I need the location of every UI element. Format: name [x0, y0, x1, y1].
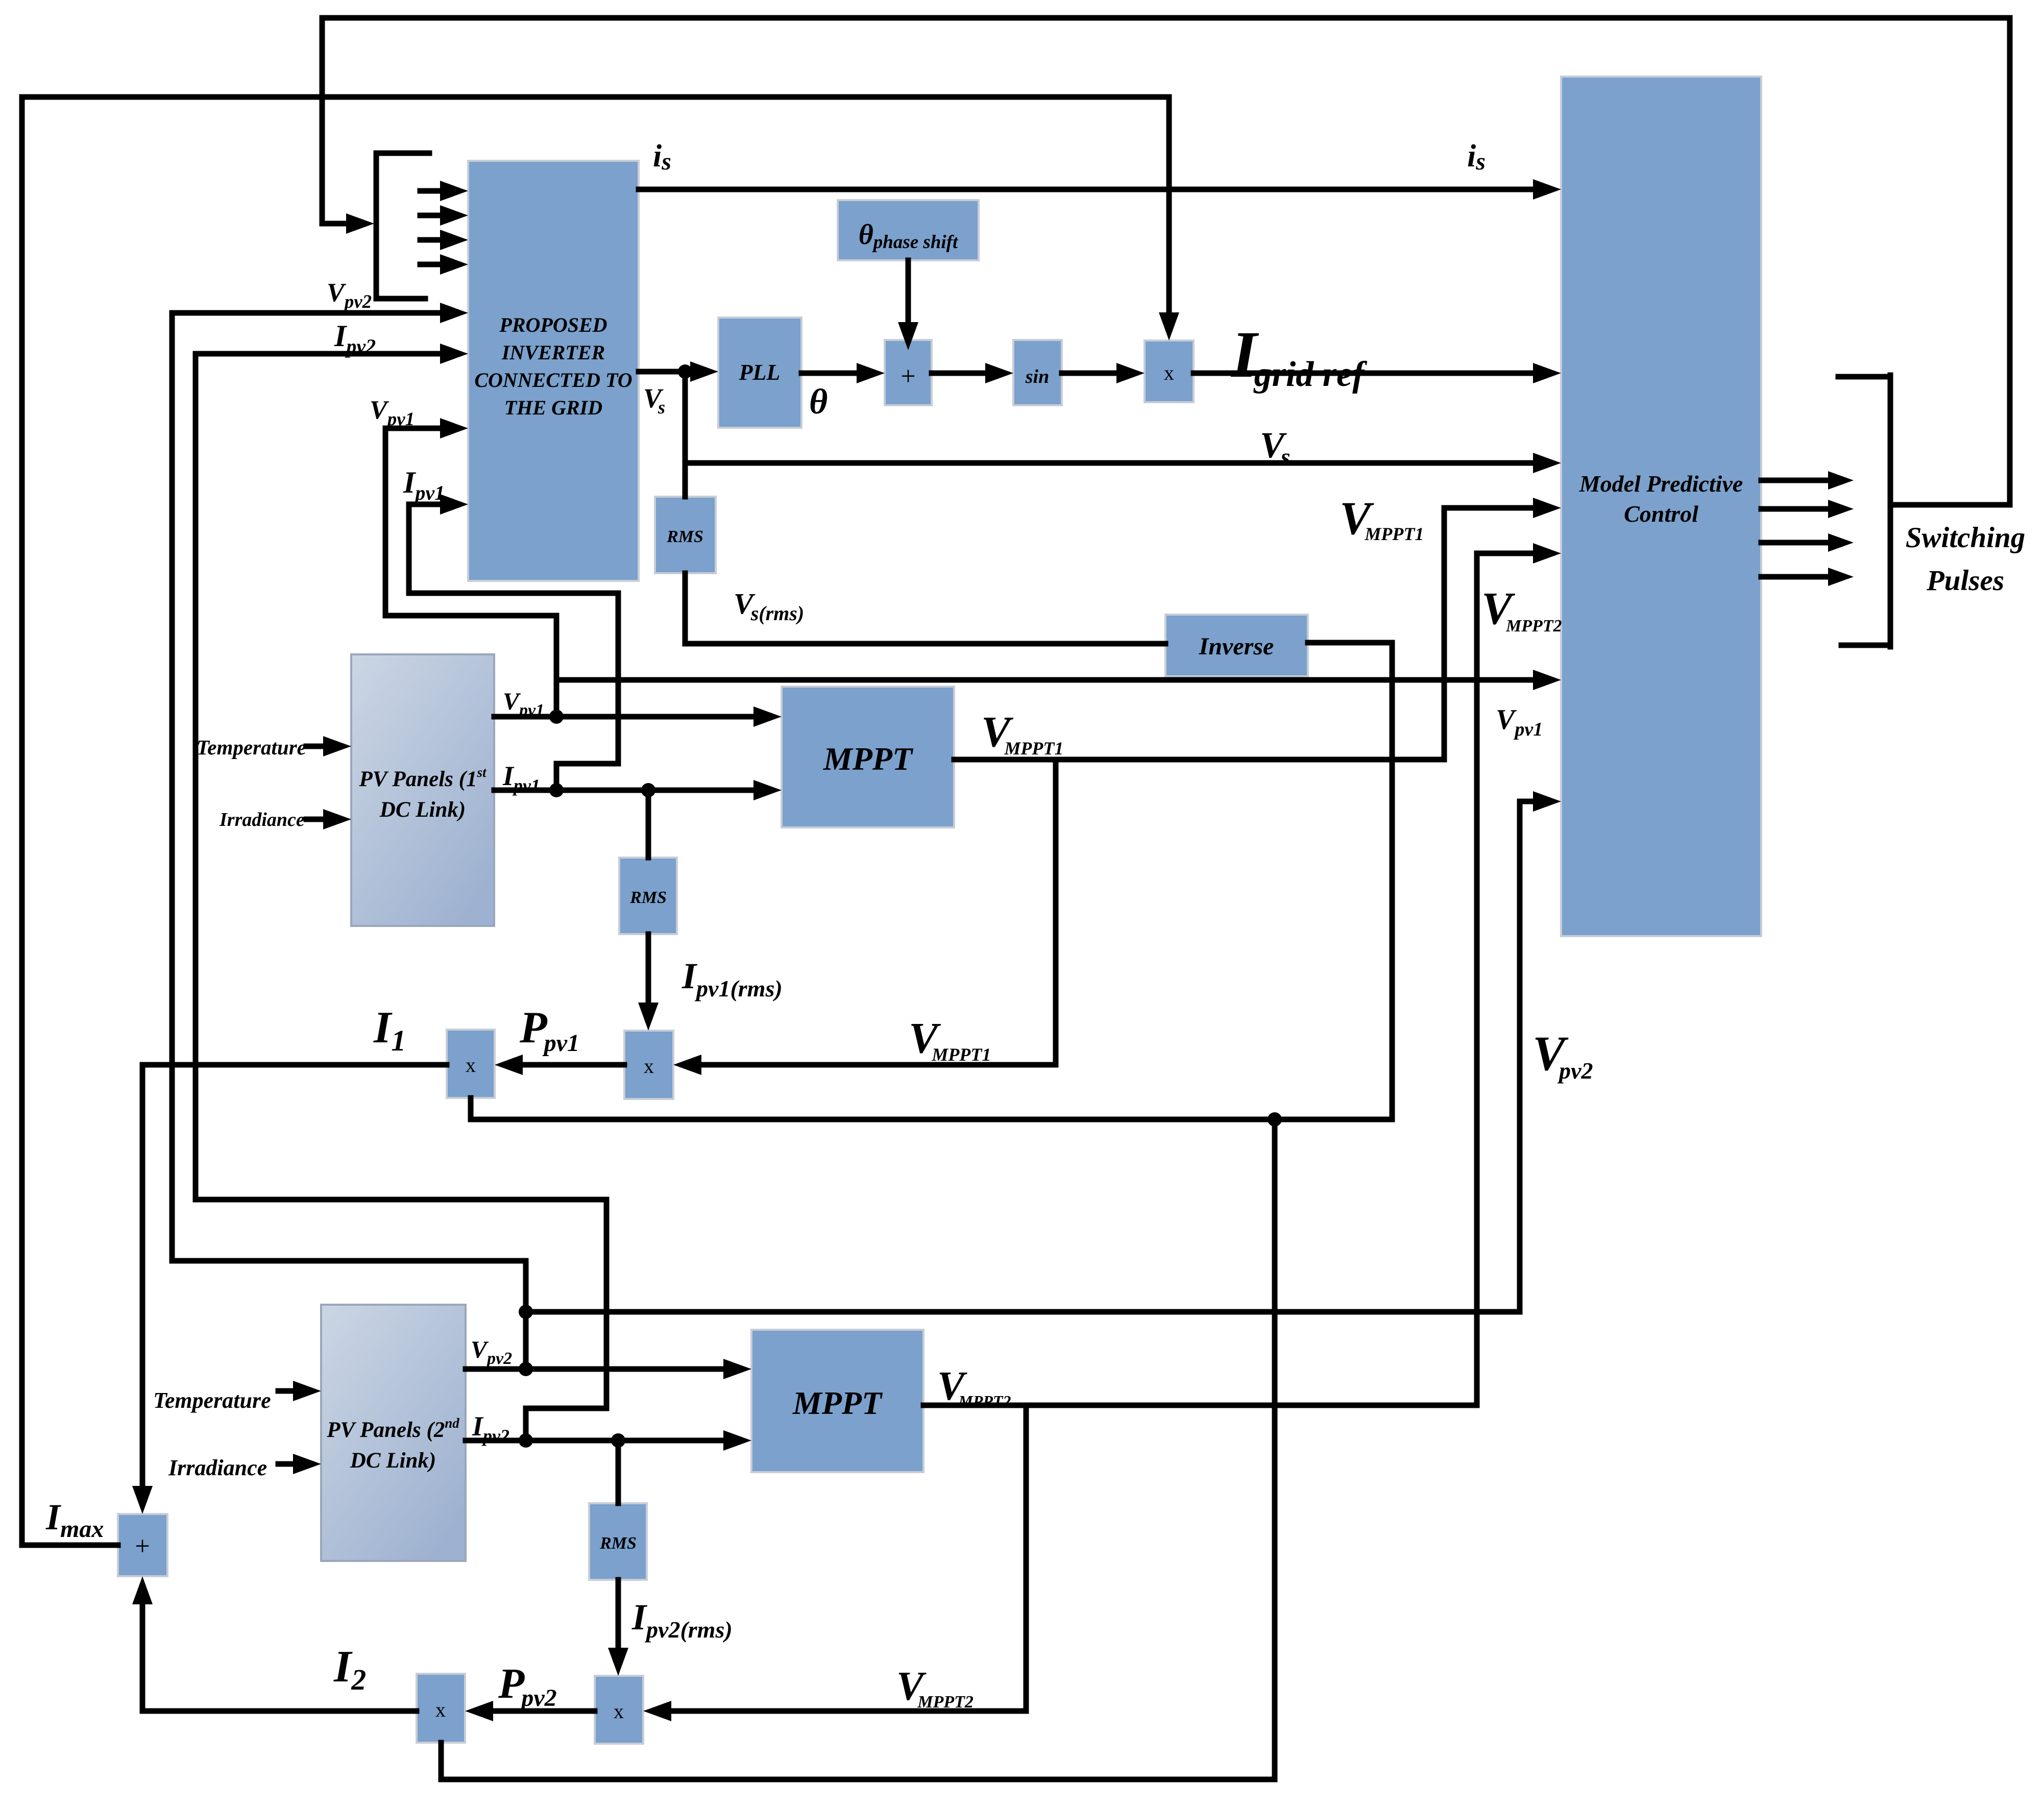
block summer plus	[885, 340, 932, 405]
wire switching pulses bracket top	[1838, 374, 1890, 380]
wire VMPPT2 output horizontal	[923, 1403, 1477, 1408]
svg-text:Ipv1: Ipv1	[403, 466, 445, 504]
node Vs junction	[678, 364, 692, 379]
block MPPT1	[782, 687, 954, 827]
svg-text:sin: sin	[1025, 366, 1049, 387]
svg-text:Imax: Imax	[45, 1497, 104, 1543]
wire Inverse output vertical	[1390, 643, 1395, 1119]
svg-text:Switching: Switching	[1906, 522, 2025, 554]
wire net Imax horizontal top	[22, 94, 1169, 100]
svg-text:VMPPT1: VMPPT1	[981, 707, 1063, 759]
wire switching pulses bracket bottom	[1841, 643, 1890, 648]
block PV Panels 2nd DC Link	[321, 1305, 466, 1561]
wire net Igrid ref to MPC	[1194, 371, 1537, 376]
wire PLL theta output	[801, 371, 858, 376]
node Ipv1 junction 2	[641, 783, 655, 797]
svg-text:VMPPT2: VMPPT2	[1481, 583, 1562, 636]
wire Imax vertical into multiplier	[1166, 97, 1172, 312]
svg-text:Temperature: Temperature	[197, 736, 306, 759]
block multiplier X4 I2	[417, 1674, 465, 1743]
wire Inverse output to I1 multiplier bottom	[471, 1117, 1392, 1122]
svg-text:DC Link): DC Link)	[350, 1449, 436, 1473]
svg-text:+: +	[901, 362, 915, 391]
svg-text:MPPT: MPPT	[823, 741, 914, 777]
wire switching pulses bracket vertical	[1888, 375, 1893, 647]
block multiplier X5 Ppv2	[595, 1676, 643, 1744]
svg-text:DC Link): DC Link)	[379, 798, 466, 822]
svg-text:Ipv2: Ipv2	[472, 1411, 509, 1446]
wire Vpv1 vertical riser	[554, 616, 559, 717]
wire MPC output pulse 1	[1761, 478, 1833, 483]
wire Ipv2 into inverter	[196, 351, 439, 357]
wire MPC output pulse 3	[1761, 540, 1833, 546]
svg-text:VMPPT1: VMPPT1	[909, 1013, 991, 1065]
node Ipv2 junction 2	[611, 1433, 625, 1448]
svg-text:Vs: Vs	[643, 383, 665, 418]
node Vpv2 junction 2	[519, 1305, 533, 1319]
wire switching feedback top horizontal	[322, 15, 2010, 21]
wire Vs branch to MPC	[685, 460, 1537, 466]
svg-text:Pulses: Pulses	[1926, 565, 2004, 597]
svg-text:VMPPT2: VMPPT2	[937, 1364, 1011, 1410]
wire Vpv1 jog horizontal	[385, 613, 556, 619]
svg-text:PROPOSED: PROPOSED	[499, 313, 607, 336]
wire VMPPT1 output horizontal	[954, 757, 1444, 763]
block multiplier X3 Ppv1	[624, 1031, 673, 1099]
wire summer to sin	[932, 371, 985, 376]
wire gate arrow 2 into inverter	[420, 213, 439, 218]
wire Vpv1 into inverter	[385, 426, 439, 431]
wire Irradiance into panel 2	[278, 1461, 294, 1467]
svg-text:VMPPT2: VMPPT2	[896, 1664, 974, 1712]
wire Temperature into panel 1	[306, 744, 324, 749]
svg-text:Ipv2(rms): Ipv2(rms)	[631, 1597, 733, 1643]
wire Vpv2 jog horizontal	[172, 1258, 526, 1264]
wire VMPPT2 into MPC	[1477, 551, 1537, 556]
wire Vpv2 vertical riser	[523, 1261, 529, 1369]
wire gate bracket vertical	[374, 153, 379, 299]
block RMS Ipv2	[589, 1503, 647, 1580]
svg-text:THE GRID: THE GRID	[504, 396, 602, 419]
wire gate bracket bottom	[376, 296, 425, 302]
wire VMPPT2 branch vertical down	[1024, 1405, 1029, 1711]
wire Vs vertical to RMS	[683, 372, 688, 497]
wire Ipv2 jog 2	[196, 1197, 606, 1203]
wire Ipv1 into inverter	[409, 502, 439, 507]
block PLL	[718, 317, 801, 428]
node Vpv2 junction 1	[519, 1362, 533, 1376]
node Ipv1 junction 1	[549, 783, 564, 797]
svg-text:x: x	[614, 1700, 624, 1723]
wire Vpv2 into MPC	[1520, 799, 1537, 804]
svg-text:PLL: PLL	[739, 360, 781, 385]
wire Ipv1 jog 2	[409, 591, 618, 596]
svg-text:θ: θ	[809, 382, 828, 422]
wire net Vpv1 panel output to MPPT1	[494, 714, 754, 720]
wire VMPPT1 vertical branch	[1053, 760, 1059, 1065]
svg-text:Model Predictive: Model Predictive	[1579, 471, 1743, 497]
block multiplier X2 I1	[447, 1030, 495, 1098]
wire net I1 horizontal	[142, 1062, 447, 1068]
svg-text:x: x	[644, 1055, 654, 1078]
wire net Ppv1 to I1 multiplier	[522, 1062, 624, 1068]
wire Inverse branch vertical down	[1272, 1119, 1278, 1779]
block MPPT2	[751, 1330, 923, 1472]
svg-text:Vpv1: Vpv1	[503, 688, 544, 720]
wire MPC output pulse 2	[1761, 506, 1833, 512]
wire sin to multiplier	[1062, 371, 1118, 376]
wire gate arrow 3 into inverter	[420, 237, 439, 243]
svg-text:Control: Control	[1624, 501, 1698, 527]
svg-text:Ipv2: Ipv2	[334, 319, 376, 358]
block sin	[1013, 340, 1062, 405]
svg-text:+: +	[135, 1532, 150, 1561]
wire Ipv1 riser stub	[554, 764, 559, 790]
block PV Panels 1st DC Link	[351, 654, 494, 926]
svg-text:I2: I2	[333, 1642, 366, 1696]
svg-text:Vs(rms): Vs(rms)	[734, 587, 804, 625]
svg-text:Temperature: Temperature	[153, 1388, 271, 1413]
wire switching feedback arrow into gate bracket	[322, 221, 347, 227]
block RMS Vs	[655, 497, 716, 573]
svg-text:is: is	[653, 139, 671, 175]
wire Vpv2 branch to MPC horizontal	[526, 1309, 1520, 1315]
wire gate arrow 4 into inverter	[420, 262, 439, 267]
svg-text:Vpv1: Vpv1	[1496, 704, 1543, 740]
wire Ipv1 vertical riser	[616, 593, 621, 764]
wire Irradiance into panel 1	[306, 817, 324, 822]
svg-text:Irradiance: Irradiance	[219, 809, 305, 830]
wire gate bracket top	[376, 151, 429, 156]
wire net Ipv2 panel output to MPPT2	[466, 1438, 724, 1444]
wire Imax from summer output	[22, 1543, 118, 1548]
wire RMS Vs output vertical	[683, 573, 688, 644]
wire I1 vertical into summer	[140, 1065, 145, 1486]
svg-text:MPPT: MPPT	[792, 1385, 883, 1421]
block Model Predictive Control	[1561, 77, 1761, 936]
wire Temperature into panel 2	[278, 1388, 294, 1394]
wire Ipv1 jog 1	[556, 761, 618, 767]
wire Vpv2 long vertical	[169, 313, 175, 1261]
wire I2 vertical into summer bottom	[140, 1604, 145, 1711]
svg-text:RMS: RMS	[599, 1534, 637, 1553]
svg-text:Vs: Vs	[1260, 425, 1291, 471]
svg-text:is: is	[1467, 139, 1486, 175]
wire switching feedback right vertical	[2007, 18, 2013, 505]
svg-text:Igrid ref: Igrid ref	[1230, 318, 1368, 394]
block Inverse	[1165, 615, 1308, 676]
svg-text:x: x	[466, 1054, 476, 1077]
wire VMPPT2 vertical to MPC level	[1474, 553, 1480, 1405]
wire net Vs inverter to PLL	[639, 369, 689, 375]
wire I2 multiplier bottom stub	[439, 1743, 444, 1779]
svg-text:I1: I1	[373, 1003, 406, 1057]
node Inverse output junction	[1268, 1112, 1282, 1127]
svg-text:CONNECTED TO: CONNECTED TO	[474, 369, 632, 392]
wire net Ipv1 panel output to MPPT1	[494, 788, 754, 793]
wire Ipv2 long vertical	[193, 354, 199, 1200]
wire Ipv2 vertical riser	[604, 1200, 610, 1408]
wire Ipv2 jog 1	[526, 1406, 606, 1411]
wire Ipv1 vertical to inverter level	[406, 504, 412, 593]
wire Ipv2 to RMS vertical	[616, 1440, 621, 1503]
node Ipv2 junction 1	[519, 1433, 533, 1448]
wire Vs rms to Inverse	[685, 641, 1165, 647]
block summer plus Imax	[118, 1514, 167, 1576]
wire VMPPT2 into Ppv2 multiplier	[671, 1708, 1026, 1714]
wire switching feedback connector to bracket	[1890, 502, 2010, 508]
svg-text:Ipv1(rms): Ipv1(rms)	[682, 956, 783, 1001]
wire Ipv1 to RMS vertical	[646, 790, 651, 858]
wire VMPPT1 vertical to MPC level	[1442, 508, 1447, 760]
wire Inverse branch to I2 multiplier bottom	[441, 1777, 1275, 1782]
wire Ipv2 riser stub	[523, 1408, 529, 1440]
wire Vpv2 into inverter	[172, 310, 439, 316]
svg-text:x: x	[435, 1698, 446, 1721]
svg-text:Vpv2: Vpv2	[471, 1336, 512, 1368]
block theta phase shift	[838, 200, 979, 260]
wire theta phase shift to summer	[906, 260, 911, 322]
block U1 PROPOSED INVERTER CONNECTED TO THE GRID	[468, 161, 639, 581]
svg-text:Ipv1: Ipv1	[502, 761, 540, 796]
wire Vpv1 branch to MPC	[556, 677, 1537, 683]
svg-text:RMS: RMS	[629, 888, 667, 907]
block multiplier X1 Igrid ref	[1145, 340, 1194, 402]
svg-text:Inverse: Inverse	[1199, 633, 1274, 660]
svg-text:RMS: RMS	[666, 527, 703, 546]
wire VMPPT1 into MPC	[1444, 505, 1537, 511]
wire net is from inverter to MPC	[639, 187, 1537, 192]
svg-text:VMPPT1: VMPPT1	[1340, 492, 1424, 544]
wire net Vpv2 panel output to MPPT2	[466, 1366, 724, 1372]
wire net VMPPT1 into Ppv1 multiplier	[701, 1062, 1056, 1068]
wire I1 multiplier bottom stub	[468, 1098, 474, 1119]
svg-text:Vpv1: Vpv1	[370, 396, 415, 430]
wire gate arrow 1 into inverter	[420, 188, 439, 194]
wire Imax left vertical	[19, 97, 25, 1545]
svg-text:Vpv2: Vpv2	[327, 278, 372, 312]
svg-text:Ppv1: Ppv1	[519, 1003, 579, 1057]
wire Inverse output horizontal	[1308, 640, 1392, 646]
wire RMS Ipv2 output to Ppv2 multiplier	[616, 1580, 621, 1648]
svg-text:PV Panels (1st: PV Panels (1st	[359, 765, 487, 791]
svg-text:Vpv2: Vpv2	[1532, 1026, 1593, 1084]
wire MPC output pulse 4	[1761, 574, 1833, 580]
wire net I2 horizontal	[142, 1708, 417, 1714]
wire RMS Ipv1 output to Ppv1 multiplier	[646, 934, 651, 1003]
wire switching feedback left vertical	[320, 18, 325, 224]
svg-text:PV Panels (2nd: PV Panels (2nd	[326, 1415, 459, 1442]
svg-text:Ppv2: Ppv2	[498, 1660, 557, 1712]
svg-text:Irradiance: Irradiance	[168, 1455, 267, 1480]
block RMS Ipv1	[619, 858, 677, 934]
node Vpv1 junction	[549, 710, 564, 724]
wire Vpv2 branch vertical	[1517, 801, 1523, 1312]
wire Vpv1 vertical to inverter level	[383, 428, 388, 616]
svg-text:x: x	[1164, 361, 1174, 384]
wire net Ppv2 to I2 multiplier	[493, 1708, 595, 1714]
svg-text:INVERTER: INVERTER	[501, 341, 605, 364]
